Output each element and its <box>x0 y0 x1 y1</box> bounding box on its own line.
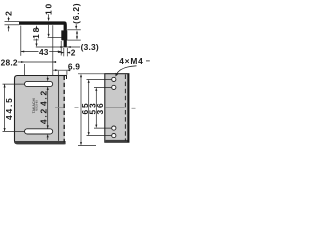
plate A outline left/top/bottom <box>15 76 65 144</box>
leader 4xM4 diagonal <box>115 73 118 77</box>
plate B bottom thick edge <box>105 140 128 142</box>
dim 10 lower line arrow <box>48 25 50 34</box>
plate A top edge extension to bend <box>59 75 67 77</box>
dim 65 line <box>80 77 82 142</box>
hole 1 <box>112 77 116 81</box>
plate A centerline <box>55 106 64 108</box>
svg-text:4.2: 4.2 <box>39 89 49 106</box>
ext tick y39.9 <box>33 39 38 41</box>
svg-text:43: 43 <box>39 47 49 57</box>
dim 2 flange ext lines <box>5 21 20 23</box>
plate A top-right bend corner <box>66 75 68 79</box>
slot 2 <box>25 129 53 134</box>
plate B right edge thick <box>127 74 129 142</box>
dim (3.3) arrows <box>60 46 63 48</box>
dim 4.2 lower arrow <box>47 134 49 137</box>
dim (6.2) arrow <box>75 24 77 26</box>
dim 43 line arrows <box>21 51 39 53</box>
dim 6.9 ext lines <box>57 71 59 75</box>
dim 18 upper arrow <box>35 25 37 28</box>
svg-text:(3.3): (3.3) <box>81 42 99 52</box>
dim 4.2 upper arrow <box>47 76 49 78</box>
ext/dim line y47 <box>36 46 80 48</box>
plate A bend dashed lines <box>58 76 60 141</box>
dim 44.5 ext lines <box>3 83 25 85</box>
svg-text:18: 18 <box>31 26 41 39</box>
svg-text:28.2: 28.2 <box>1 58 18 68</box>
right view ext lines <box>78 73 105 75</box>
plate B side view <box>105 74 129 143</box>
svg-text:4.2: 4.2 <box>39 107 49 124</box>
svg-text:36: 36 <box>95 102 105 115</box>
dim 2 leg ext lines <box>63 48 65 56</box>
dim 6.9 line arrows <box>53 69 71 71</box>
svg-text:44.5: 44.5 <box>4 96 14 120</box>
svg-text:10: 10 <box>43 2 53 15</box>
top view: vertical leg (black) <box>64 24 67 47</box>
plate A bottom thick edge <box>15 141 66 144</box>
ext line y29.8 <box>67 29 81 31</box>
plate A bend dashed line <box>63 76 65 143</box>
leader 4xM4 shelf <box>117 66 137 74</box>
dim 44.5 line arrows <box>4 84 6 131</box>
hole 3 <box>112 126 116 130</box>
dim 28.2 ext left <box>24 64 26 81</box>
top view: flange bar (section, black) <box>19 21 67 47</box>
plate A front view <box>14 75 65 144</box>
dim 18 lower line arrow <box>36 39 38 44</box>
plate B dashed line <box>124 75 126 142</box>
slot projection ext line <box>52 25 54 80</box>
dim 2 flange arrows <box>8 17 10 18</box>
dim 4.2 middle line arrows <box>47 87 49 129</box>
ext line y40.1 <box>67 39 81 41</box>
dim 28.2 line arrows <box>18 61 57 63</box>
svg-text:(6.2): (6.2) <box>71 3 81 24</box>
label continuation dash <box>146 60 150 62</box>
ext line y37.5 <box>48 37 62 39</box>
dim 10 upper arrow <box>48 14 50 18</box>
dim 2 leg arrows <box>58 52 61 54</box>
svg-text:2: 2 <box>71 47 76 57</box>
dim 36 line <box>95 91 97 125</box>
dim 43 ext right <box>60 41 62 56</box>
dim 53 line <box>88 83 90 133</box>
dim 43 ext left <box>20 26 22 56</box>
svg-text:2: 2 <box>4 9 14 15</box>
dim block arrows <box>76 30 78 33</box>
slot 1 <box>25 81 53 86</box>
svg-text:4×M4: 4×M4 <box>119 56 143 66</box>
top view: block on leg <box>61 30 67 40</box>
plate B centerline <box>105 107 124 109</box>
hole 4 <box>112 134 116 138</box>
hole 2 <box>112 85 116 89</box>
